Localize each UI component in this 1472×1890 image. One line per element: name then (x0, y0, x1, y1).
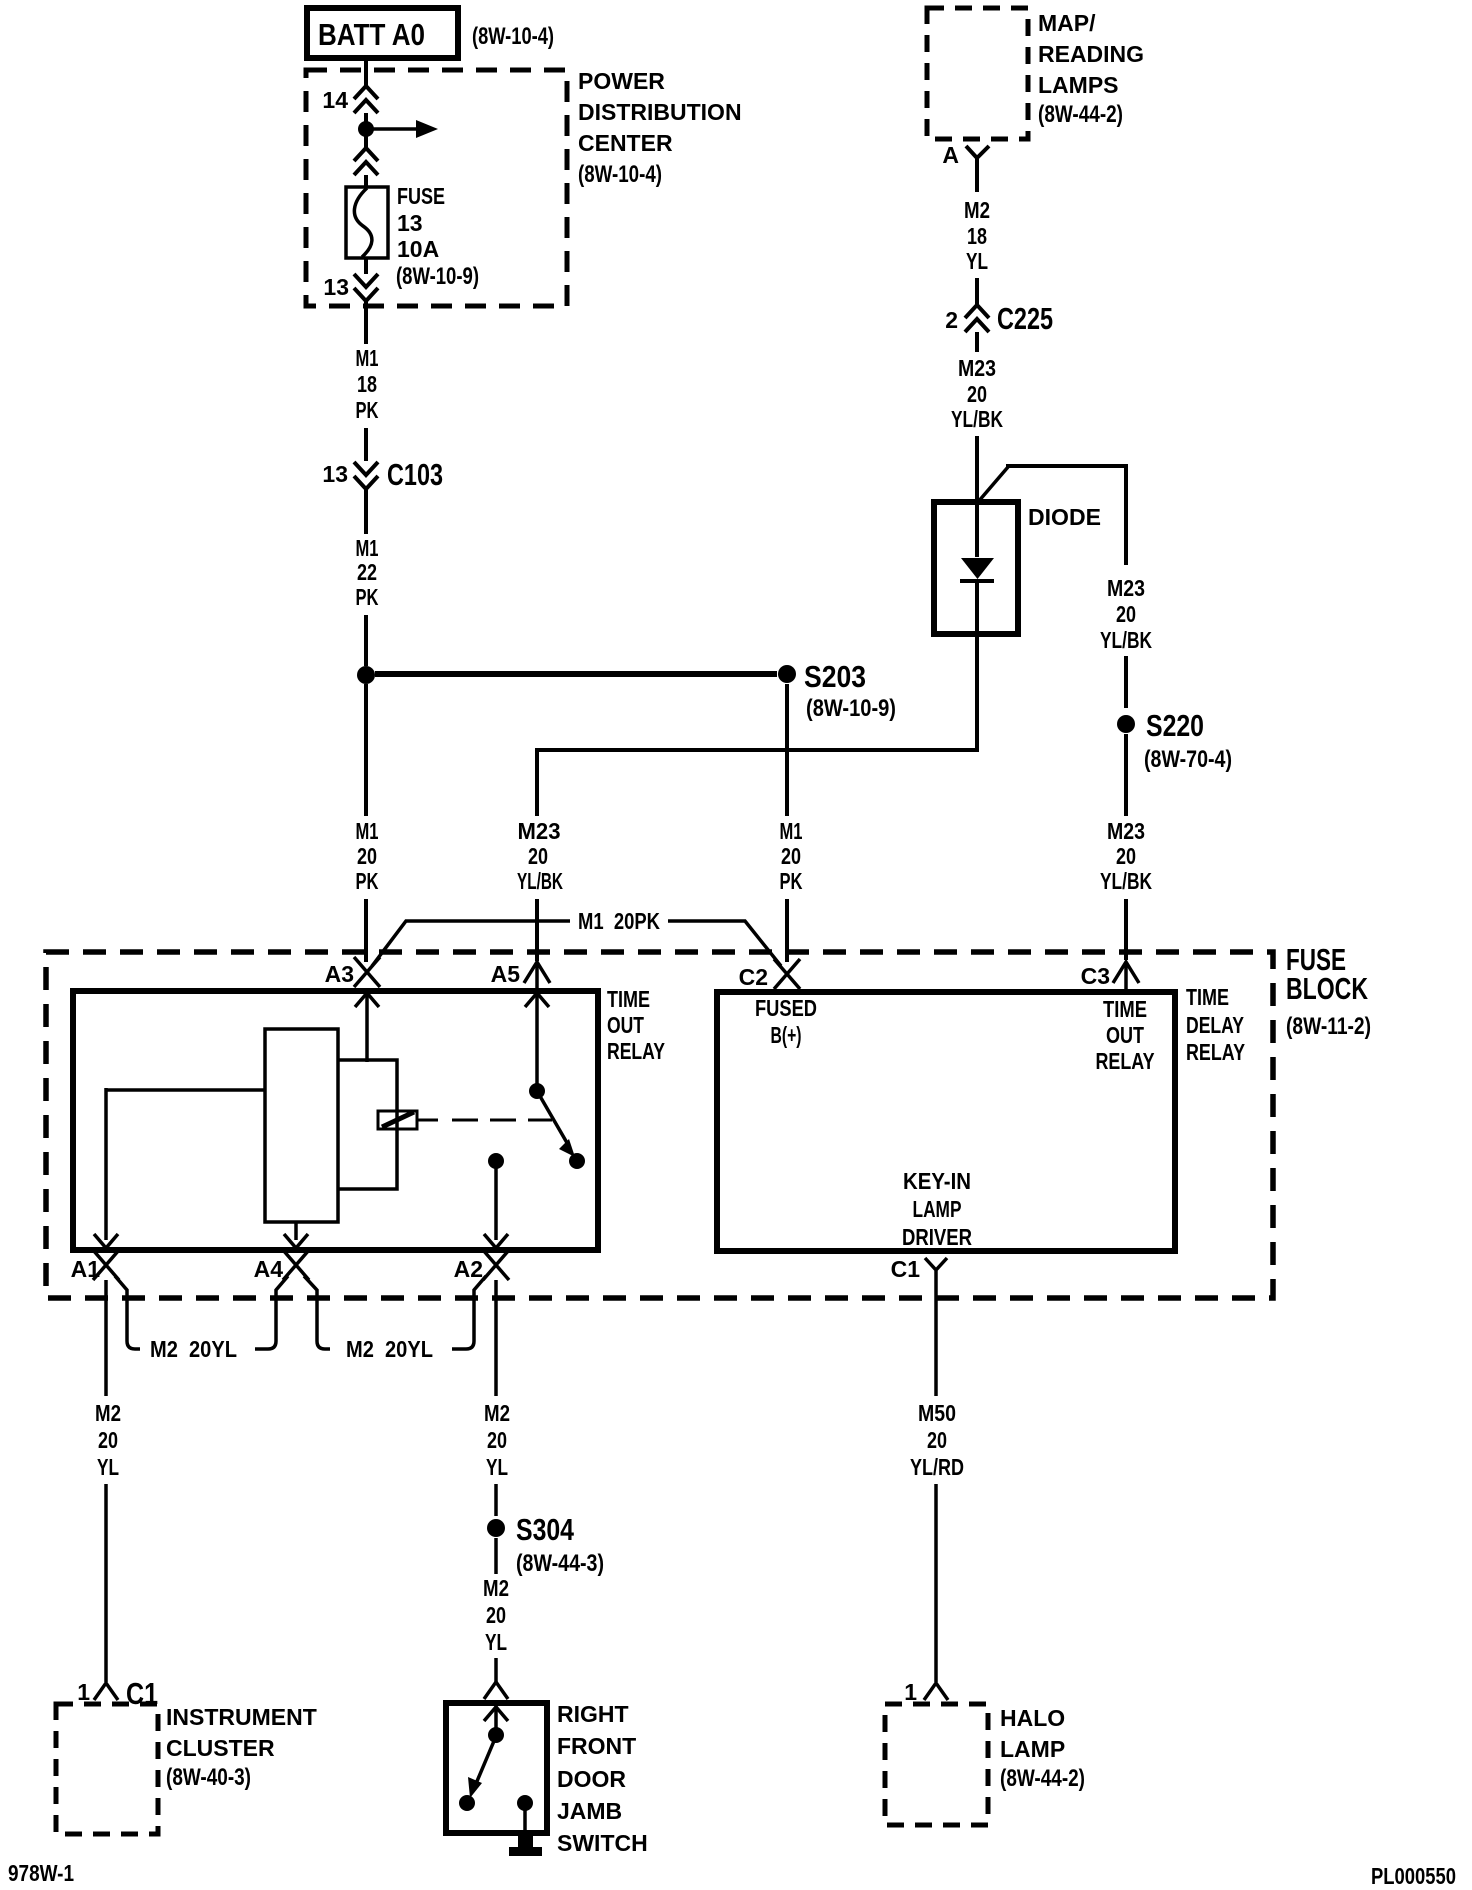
svg-text:RIGHT: RIGHT (557, 1701, 629, 1727)
splice S304 (487, 1512, 604, 1577)
svg-text:A5: A5 (491, 961, 521, 987)
svg-text:1: 1 (904, 1679, 917, 1705)
wire M2 18 YL (975, 168, 979, 192)
wire (975, 436, 979, 503)
wire M50 20 YL/RD from key-in C1 to halo lamp (934, 1292, 938, 1396)
fuse block dashed box (46, 942, 1371, 1298)
switch internal arrow (484, 1707, 508, 1721)
svg-text:(8W-10-4): (8W-10-4) (578, 161, 662, 188)
wire (494, 1484, 498, 1516)
wire M23 20 YL/BK right leg (1100, 575, 1152, 653)
svg-text:(8W-44-2): (8W-44-2) (1038, 101, 1123, 128)
svg-text:MAP/: MAP/ (1038, 10, 1096, 36)
svg-text:PK: PK (780, 868, 803, 894)
svg-text:RELAY: RELAY (1096, 1048, 1155, 1074)
svg-text:LAMP: LAMP (1000, 1736, 1065, 1762)
wire (1124, 899, 1128, 960)
svg-text:PK: PK (356, 584, 379, 610)
relay A2 down arrow (484, 1234, 508, 1248)
svg-text:20: 20 (528, 843, 548, 869)
svg-text:13: 13 (397, 210, 423, 236)
relay armature (378, 1111, 417, 1129)
svg-text:A3: A3 (325, 961, 354, 987)
wire (364, 899, 368, 962)
wire M2 20YL bus A1 to A4 (115, 1276, 288, 1362)
svg-text:POWER: POWER (578, 68, 665, 94)
pin C1 connector of key-in lamp driver (891, 1256, 947, 1292)
pin A2 connector (454, 1250, 509, 1282)
wire (535, 899, 539, 961)
svg-text:HALO: HALO (1000, 1705, 1065, 1731)
svg-text:FRONT: FRONT (557, 1733, 636, 1759)
svg-text:(8W-70-4): (8W-70-4) (1144, 746, 1232, 773)
wire (975, 278, 979, 307)
svg-text:M2: M2 (95, 1400, 121, 1426)
svg-text:M1: M1 (356, 345, 379, 371)
switch upper contact (488, 1727, 504, 1743)
pin 1 connector C1 instrument cluster (77, 1676, 158, 1711)
svg-text:M1: M1 (780, 818, 803, 844)
svg-text:CLUSTER: CLUSTER (166, 1735, 275, 1761)
svg-text:18: 18 (967, 223, 987, 249)
svg-text:14: 14 (322, 87, 348, 113)
relay switch pivot (529, 1083, 545, 1099)
svg-text:PK: PK (356, 868, 379, 894)
relay linkage dashed (417, 1119, 552, 1122)
wire (494, 1658, 498, 1682)
splice S203 (778, 659, 896, 722)
pin A connector (942, 142, 989, 168)
wire (364, 428, 368, 461)
svg-text:RELAY: RELAY (1186, 1039, 1245, 1065)
relay switch blade (537, 1091, 585, 1169)
connector C225 (945, 301, 1053, 336)
svg-text:DISTRIBUTION: DISTRIBUTION (578, 99, 742, 125)
branch wire from diode anode to S220 leg (978, 466, 1128, 565)
pin A3 connector (325, 957, 380, 987)
svg-text:TIME: TIME (1186, 984, 1229, 1010)
key-in lamp driver box (717, 992, 1175, 1251)
time out relay box (73, 986, 665, 1250)
halo lamp dashed box (885, 1704, 1085, 1825)
svg-text:M1: M1 (356, 535, 379, 561)
svg-text:M2: M2 (484, 1400, 510, 1426)
wire (364, 175, 368, 188)
wire M2 20 YL from A1 to instrument cluster (104, 1280, 108, 1396)
pin A4 connector (254, 1250, 309, 1282)
svg-text:READING: READING (1038, 41, 1144, 67)
map/reading lamps dashed box (927, 8, 1144, 139)
svg-text:C1: C1 (891, 1256, 921, 1282)
wire M2 20YL bus A4 to A2 (304, 1276, 486, 1362)
svg-text:FUSE: FUSE (397, 183, 445, 209)
svg-text:C3: C3 (1081, 963, 1110, 989)
relay contact to A2 (488, 1153, 504, 1240)
svg-text:(8W-10-9): (8W-10-9) (396, 263, 479, 290)
svg-text:B(+): B(+) (771, 1022, 802, 1048)
svg-text:S304: S304 (516, 1512, 575, 1547)
svg-text:CENTER: CENTER (578, 130, 673, 156)
svg-text:OUT: OUT (1106, 1022, 1144, 1048)
pin 1 connector halo lamp (904, 1679, 948, 1705)
svg-text:(8W-44-3): (8W-44-3) (516, 1550, 604, 1577)
svg-text:S203: S203 (804, 659, 866, 694)
svg-text:20: 20 (967, 381, 987, 407)
wire (364, 134, 368, 150)
splice S220 (1117, 708, 1232, 773)
svg-text:M50: M50 (918, 1400, 956, 1426)
svg-text:22: 22 (357, 559, 377, 585)
svg-text:20: 20 (98, 1427, 118, 1453)
diode D1 (934, 502, 1101, 634)
svg-text:(8W-10-4): (8W-10-4) (472, 23, 554, 50)
wire (364, 258, 368, 274)
svg-text:(8W-44-2): (8W-44-2) (1000, 1765, 1085, 1792)
wire (104, 1484, 108, 1682)
relay coil terminal loop (338, 1060, 397, 1189)
svg-text:BLOCK: BLOCK (1286, 971, 1368, 1006)
svg-text:A: A (942, 142, 959, 168)
svg-text:YL/BK: YL/BK (951, 406, 1003, 432)
svg-text:DRIVER: DRIVER (902, 1224, 972, 1250)
svg-text:10A: 10A (397, 236, 439, 262)
wire M2 20 YL to door jamb switch (494, 1538, 498, 1574)
switch wire to contact (494, 1705, 498, 1730)
pin A5 connector (491, 961, 550, 992)
wire M1 18 PK (364, 301, 368, 344)
svg-text:20: 20 (357, 843, 377, 869)
svg-text:DELAY: DELAY (1186, 1012, 1244, 1038)
ground symbol (509, 1834, 542, 1856)
wire (1124, 656, 1128, 708)
svg-text:2: 2 (945, 307, 958, 333)
svg-text:LAMPS: LAMPS (1038, 72, 1119, 98)
svg-text:YL: YL (97, 1454, 119, 1480)
wire M2 20 YL from A2 to S304 (494, 1280, 498, 1396)
svg-text:13: 13 (322, 461, 348, 487)
svg-text:TIME: TIME (607, 986, 650, 1012)
svg-text:M23: M23 (1107, 575, 1145, 601)
svg-text:A4: A4 (254, 1256, 284, 1282)
svg-text:JAMB: JAMB (557, 1798, 622, 1824)
svg-text:SWITCH: SWITCH (557, 1830, 648, 1856)
relay A4 wire and down arrow (284, 1222, 308, 1248)
svg-text:INSTRUMENT: INSTRUMENT (166, 1704, 317, 1730)
wire M23 20 YL/BK (975, 332, 979, 352)
relay pin A3 internal arrow and wire (355, 993, 379, 1062)
arrow to other circuits (373, 120, 438, 138)
svg-text:RELAY: RELAY (607, 1038, 665, 1064)
svg-text:(8W-11-2): (8W-11-2) (1286, 1013, 1371, 1040)
svg-text:KEY-IN: KEY-IN (903, 1168, 971, 1194)
connector C103 (322, 457, 443, 492)
switch ground contact (517, 1795, 533, 1834)
pin C3 connector (1081, 962, 1139, 992)
wire from A1 into coil (106, 1088, 265, 1240)
svg-text:LAMP: LAMP (913, 1196, 962, 1222)
svg-text:(8W-40-3): (8W-40-3) (166, 1764, 251, 1791)
svg-text:978W-1: 978W-1 (8, 1860, 74, 1886)
wire M23 20 YL/BK to C3 (1124, 734, 1128, 816)
svg-text:C2: C2 (739, 964, 768, 990)
relay A1 down arrow (94, 1234, 118, 1248)
svg-text:DIODE: DIODE (1028, 504, 1101, 530)
svg-text:YL: YL (485, 1629, 507, 1655)
power distribution center dashed box (306, 68, 742, 306)
right front door jamb switch box (446, 1701, 648, 1856)
wire (785, 899, 789, 962)
svg-text:TIME: TIME (1103, 996, 1147, 1022)
svg-text:YL/BK: YL/BK (1100, 868, 1152, 894)
svg-text:BATT A0: BATT A0 (318, 17, 425, 52)
svg-text:FUSED: FUSED (755, 995, 817, 1021)
svg-text:20: 20 (781, 843, 801, 869)
svg-text:20: 20 (486, 1602, 506, 1628)
wire (934, 1484, 938, 1682)
wire (364, 615, 368, 666)
relay pin A5 internal arrow and wire (525, 993, 549, 1086)
wire M1 20 PK left (364, 684, 368, 816)
svg-text:M2 20YL: M2 20YL (150, 1336, 237, 1362)
pin A1 connector (71, 1250, 119, 1282)
svg-text:S220: S220 (1146, 708, 1204, 743)
svg-text:DOOR: DOOR (557, 1766, 626, 1792)
svg-text:20: 20 (1116, 843, 1136, 869)
svg-text:20: 20 (487, 1427, 507, 1453)
svg-text:20: 20 (1116, 601, 1136, 627)
svg-text:OUT: OUT (607, 1012, 644, 1038)
svg-text:YL: YL (966, 248, 988, 274)
svg-text:20: 20 (927, 1427, 947, 1453)
pin 14 connector chevrons (322, 86, 378, 113)
svg-text:YL: YL (486, 1454, 508, 1480)
svg-text:M2 20YL: M2 20YL (346, 1336, 433, 1362)
time delay relay label (1186, 984, 1245, 1065)
svg-text:YL/BK: YL/BK (517, 868, 563, 894)
wire splice bus to S203 (375, 671, 777, 677)
svg-text:PL000550: PL000550 (1371, 1863, 1456, 1889)
svg-text:M23: M23 (518, 818, 561, 844)
switch blade with arrow (459, 1741, 494, 1811)
fuse 13 10A (346, 183, 479, 290)
door jamb switch top connector (484, 1682, 508, 1699)
svg-text:C225: C225 (997, 301, 1053, 336)
wire from diode cathode down and left to A5 leg (537, 634, 977, 816)
svg-text:YL/BK: YL/BK (1100, 627, 1152, 653)
svg-text:(8W-10-9): (8W-10-9) (806, 695, 896, 722)
svg-text:PK: PK (356, 397, 379, 423)
wire BATT A0 to pin 14 (364, 58, 368, 88)
svg-text:C103: C103 (387, 457, 443, 492)
junction node at M1 split (357, 666, 375, 684)
svg-text:1: 1 (77, 1679, 90, 1705)
svg-text:M1 20PK: M1 20PK (578, 908, 660, 934)
svg-text:M2: M2 (483, 1575, 509, 1601)
wire M23 20 YL/BK to A5 (517, 818, 563, 894)
wire M1 22 PK (364, 490, 368, 534)
svg-text:18: 18 (357, 371, 377, 397)
battery feed box BATT A0 (307, 8, 458, 58)
svg-text:13: 13 (323, 274, 349, 300)
svg-text:M23: M23 (958, 355, 996, 381)
svg-text:M1: M1 (356, 818, 379, 844)
pin 13 connector chevrons (323, 274, 378, 301)
instrument cluster dashed box (56, 1704, 317, 1834)
wire M1 20 PK from S203 to C2 (785, 684, 789, 816)
svg-text:YL/RD: YL/RD (910, 1454, 964, 1480)
svg-text:A2: A2 (454, 1256, 483, 1282)
svg-text:M2: M2 (964, 197, 990, 223)
connector chevrons above fuse (354, 148, 378, 175)
junction node in PDC (358, 121, 374, 137)
pin C2 connector (739, 959, 800, 990)
relay coil body (265, 1029, 338, 1222)
wire M1 20PK jumper bus from A3 to C2 (372, 908, 781, 966)
svg-text:M23: M23 (1107, 818, 1145, 844)
wire (364, 113, 368, 124)
